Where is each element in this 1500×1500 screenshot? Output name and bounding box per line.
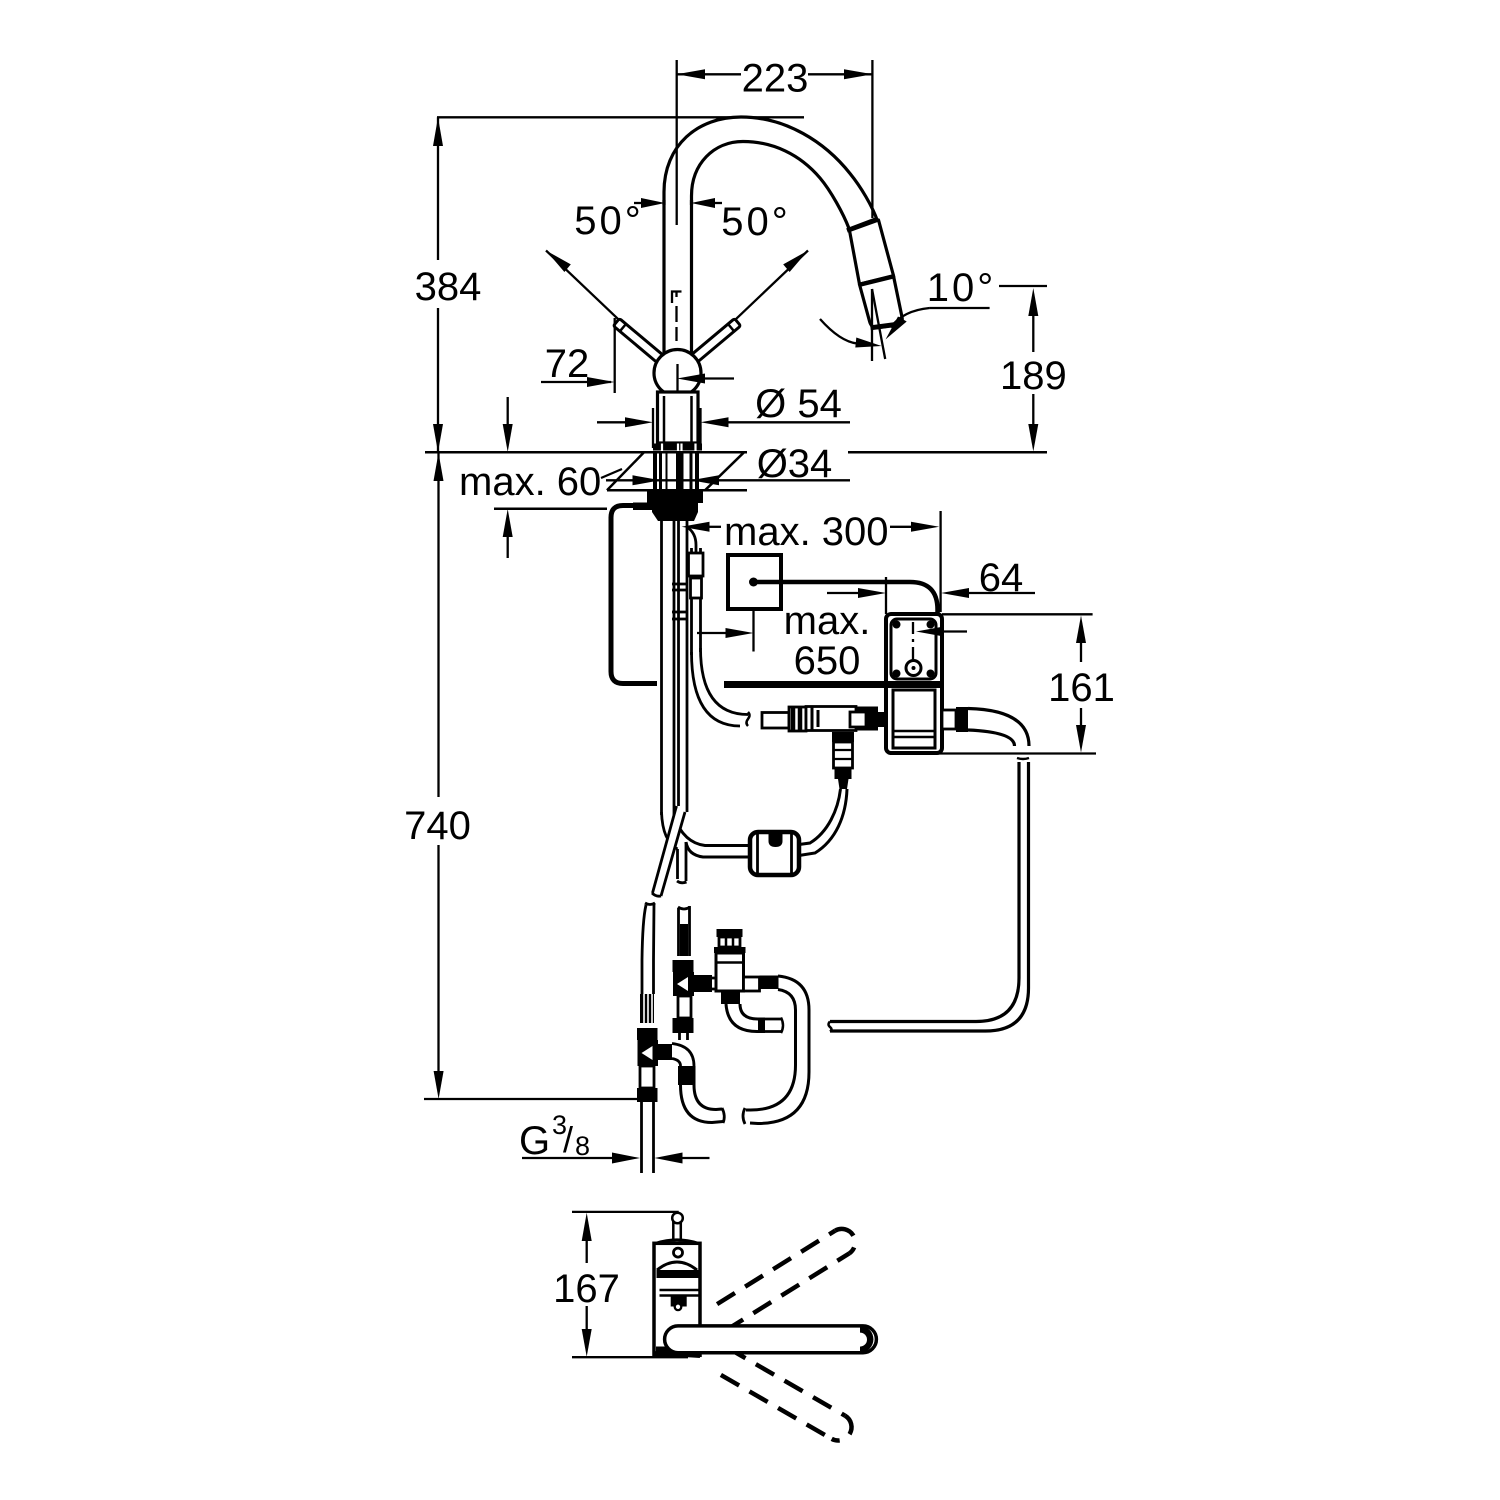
top view mounting pin circle: [672, 1213, 683, 1224]
faucet column left line: [662, 200, 665, 353]
compartment corner screws: [893, 621, 935, 678]
50 deg right arrowhead: [783, 251, 808, 273]
svg-text:Ø34: Ø34: [757, 442, 833, 486]
J hose from check valve right: [746, 976, 809, 1124]
dimension 72 center arrow: [677, 374, 705, 384]
faucet spout inner curve: [692, 142, 850, 229]
spray head joint tick 2: [859, 276, 896, 285]
unit inner arrow: [941, 630, 967, 632]
top view dark band: [657, 1270, 700, 1278]
control unit upper compartment: [891, 619, 936, 679]
bead top notch: [769, 833, 783, 847]
top view body: [656, 1240, 698, 1243]
right lever handle: [691, 319, 740, 363]
svg-text:/: /: [563, 1119, 573, 1160]
middle lower hex nut: [673, 1018, 694, 1033]
left tee valve body: [638, 1040, 659, 1066]
check valve body: [716, 953, 744, 991]
10 degree vertical reference: [871, 289, 873, 361]
max 60 lower reference line: [494, 508, 607, 511]
connector chain to control unit: [762, 713, 789, 729]
faucet base body: [658, 392, 699, 443]
left hose braided section: [640, 994, 654, 1023]
50 deg right thin line: [696, 251, 808, 357]
cartridge centerline dashes: [675, 306, 677, 341]
50 deg left arrowhead: [546, 251, 571, 273]
svg-text:G: G: [519, 1119, 550, 1163]
unit lower compartment: [893, 690, 935, 748]
faucet spout outer curve: [664, 117, 878, 221]
check valve top cap: [717, 929, 743, 937]
spray hose lower fitting: [832, 732, 854, 742]
mounting bracket: [611, 506, 657, 684]
cable cut mark: [747, 712, 750, 726]
dimension diameter 34 arrows: [633, 475, 720, 485]
unit right outlet fitting: [942, 710, 956, 729]
top view spout solid: [665, 1326, 877, 1353]
middle tee lower body: [678, 996, 691, 1018]
control unit thick band: [886, 681, 942, 688]
loop hose cut marks: [829, 758, 1030, 1032]
svg-text:64: 64: [979, 556, 1024, 600]
50 deg left thin line: [546, 251, 658, 357]
svg-text:384: 384: [415, 265, 482, 309]
svg-text:740: 740: [404, 804, 471, 848]
mounting plate thick line: [724, 681, 942, 688]
svg-text:10°: 10°: [927, 266, 997, 310]
dimension 72 extension line at lever tip: [614, 318, 616, 393]
svg-text:max. 300: max. 300: [724, 510, 889, 554]
svg-text:72: 72: [545, 342, 590, 386]
sensor box dot: [749, 578, 758, 587]
faucet column right line: [690, 200, 693, 353]
sensor cable sleeves: [689, 553, 704, 576]
189 top reference line: [999, 285, 1047, 287]
base inner lines: [664, 396, 692, 443]
spray head lower body: [860, 277, 903, 328]
shank thread: [652, 503, 698, 512]
unit left inlet fitting: [850, 712, 866, 727]
max 60 leader: [601, 469, 622, 478]
svg-text:223: 223: [742, 57, 809, 101]
svg-text:650: 650: [794, 639, 861, 683]
10 degree right arc: [891, 308, 930, 328]
middle tee hex nut: [673, 960, 694, 972]
ball centerline: [676, 364, 678, 393]
dimension G 3/8: [522, 1157, 710, 1159]
elbow collar: [678, 1066, 696, 1085]
middle hose resumed: [679, 906, 690, 956]
check valve inlet left: [712, 978, 716, 989]
hose from elbow to cut: [681, 1085, 724, 1123]
long hose right loop: [830, 762, 1029, 1031]
left lever handle: [613, 319, 662, 363]
elbow below check valve: [726, 1004, 758, 1032]
dimension 740 line: [437, 453, 439, 1072]
counter parallelogram right slant: [705, 452, 744, 490]
svg-text:max. 60: max. 60: [459, 460, 601, 504]
unit screw circle: [906, 661, 921, 676]
top view detail square: [671, 1296, 687, 1307]
dimension diameter 54 extension lines: [597, 408, 850, 448]
top view upper dashed spout: [717, 1229, 855, 1331]
hose A bend to short vertical: [662, 812, 678, 849]
hose left of bead: [674, 817, 750, 846]
dimension 384 arrows: [433, 117, 443, 452]
supply hose connector sleeves: [672, 584, 687, 619]
dimension diameter 34 line: [606, 479, 850, 481]
dimension 64: [827, 577, 1035, 614]
control unit body: [886, 614, 942, 753]
svg-text:max.: max.: [784, 599, 871, 643]
dimension 72 arrow right: [587, 377, 615, 387]
counter top line: [425, 451, 1047, 454]
hose from fitting to ferrite bead: [799, 789, 847, 856]
cartridge detail mark: [672, 292, 682, 304]
dimension 740 arrows: [434, 453, 444, 1099]
counter parallelogram bottom: [607, 489, 747, 492]
dimension diameter 54 arrows: [625, 417, 729, 427]
left lower hex nut: [637, 1088, 658, 1102]
sensor cable to unit: [884, 582, 938, 614]
check valve right port: [744, 977, 760, 991]
top view mounting hole: [674, 1248, 683, 1257]
hose bundle vertical lines: [662, 521, 688, 817]
sensor cable bend to connector: [701, 648, 749, 715]
check valve collar: [714, 947, 746, 953]
dimension max 300: [708, 511, 941, 612]
dimension 223 arrows: [677, 69, 873, 79]
sensor box: [728, 555, 781, 609]
left tee right branch: [658, 1044, 672, 1060]
escutcheon flange: [653, 444, 702, 451]
svg-text:50°: 50°: [721, 200, 791, 244]
left tee hex nut: [637, 1028, 658, 1040]
svg-text:Ø 54: Ø 54: [755, 382, 842, 426]
elbow from left tee: [672, 1044, 694, 1067]
ferrite bead: [750, 832, 799, 875]
spray head upper section: [850, 220, 894, 284]
svg-text:161: 161: [1048, 666, 1115, 710]
dimension 161 bottom reference: [936, 752, 1096, 754]
dimension 384 line: [437, 117, 439, 452]
dimension 189 line: [1032, 314, 1034, 426]
dimension 223 top reference line: [677, 60, 873, 225]
middle tee valve body: [673, 972, 694, 996]
check valve bottom port: [721, 991, 740, 1004]
dimension 167 references: [572, 1212, 688, 1357]
50 deg zero arrows at column: [641, 198, 715, 208]
SECTION-MID: [404, 397, 1115, 1099]
shank cone: [652, 512, 698, 521]
spray head joint tick 1: [847, 220, 876, 231]
sensor cable leader: [757, 580, 884, 585]
left supply hose resumed: [642, 903, 654, 994]
G 3/8 supply pipe: [642, 1102, 654, 1173]
counter parallelogram left slant: [607, 452, 644, 490]
SECTION-BOT: [424, 903, 876, 1441]
diagonal sensor hose: [653, 806, 686, 896]
sensor cable exit curve: [687, 527, 696, 552]
dimension 189 arrows: [1028, 288, 1038, 452]
svg-text:50°: 50°: [574, 199, 644, 243]
outlet elbow hose: [968, 709, 1029, 747]
pipe to cut: [758, 1018, 765, 1034]
height reference line 384 top: [437, 116, 804, 118]
740 bottom reference line: [424, 1098, 637, 1100]
svg-text:8: 8: [575, 1131, 590, 1161]
10 degree left arc: [820, 319, 857, 344]
body bottom edge over spout: [654, 1353, 700, 1356]
svg-text:189: 189: [1000, 354, 1067, 398]
top view band 2: [660, 1290, 700, 1296]
ball joint: [654, 350, 701, 397]
spray head outlet thick edge: [871, 324, 899, 328]
unit dash-dot line: [912, 622, 914, 660]
middle tee right branch: [694, 975, 712, 992]
sensor box bottom stub: [752, 609, 754, 652]
dimension max 60 arrows: [503, 424, 513, 537]
svg-text:167: 167: [553, 1267, 620, 1311]
mounting shank locknut: [647, 491, 703, 504]
dimension 161 line: [1080, 641, 1082, 727]
10 degree leader line: [930, 307, 990, 309]
spout tip dark cap: [860, 1326, 873, 1353]
dimension max 650: [697, 632, 727, 634]
10 degree slanted axis: [872, 289, 885, 359]
left tee lower body: [640, 1066, 654, 1088]
10 degree left arc arrow: [855, 338, 881, 348]
shank tube verticals: [661, 452, 692, 490]
dimension max 60 vertical: [507, 397, 509, 558]
SECTION-TOP: [415, 57, 1067, 453]
top view lower dashed spout: [721, 1348, 852, 1441]
short vertical hose to cut: [678, 842, 687, 881]
top view dome arc: [657, 1262, 697, 1270]
bracket clamp piece: [633, 503, 656, 511]
10 degree right arc arrow: [886, 317, 907, 340]
body lower dark wedge: [656, 1347, 700, 1357]
dimension 161 top reference: [942, 613, 1093, 615]
